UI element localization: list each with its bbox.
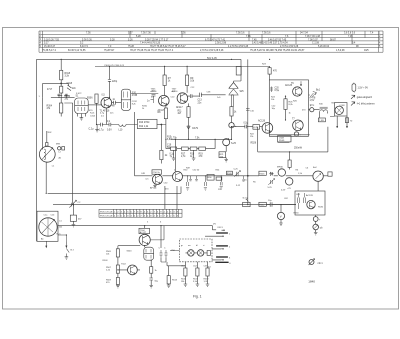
svg-text:C 2,08: C 2,08	[312, 43, 320, 45]
svg-text:1k: 1k	[155, 270, 158, 272]
svg-text:mb 1: mb 1	[318, 263, 324, 265]
svg-text:0,2V: 0,2V	[281, 190, 286, 192]
transistor T11	[286, 178, 293, 185]
svg-text:250mW: 250mW	[294, 147, 303, 149]
ground	[192, 150, 196, 160]
svg-text:50µ: 50µ	[155, 281, 159, 283]
svg-text:470: 470	[106, 282, 110, 284]
resistor R57	[216, 177, 222, 180]
pin arrow inside box top	[300, 81, 301, 86]
wire long vertical from can area down	[64, 103, 72, 205]
diode GR52	[269, 172, 274, 176]
svg-text:R10 270Ω: R10 270Ω	[139, 122, 150, 124]
svg-text:1,5V: 1,5V	[310, 100, 315, 102]
jack circle 2	[197, 250, 203, 256]
capacitor C316	[60, 86, 63, 93]
Fig. 1 caption	[193, 295, 202, 299]
junction	[247, 175, 248, 176]
svg-text:R318: R318	[65, 73, 71, 75]
caps right of S504	[160, 250, 163, 258]
svg-text:R534: R534	[294, 213, 300, 215]
IF transformer S1 (can)	[75, 98, 89, 114]
svg-text:C52: C52	[193, 266, 198, 268]
svg-text:3-12: 3-12	[236, 185, 241, 187]
transistor T4	[223, 139, 230, 146]
wire + caps to IF can1	[51, 95, 75, 97]
capacitor C21	[245, 125, 253, 129]
svg-text:0,5: 0,5	[146, 179, 150, 181]
resistor R7	[163, 75, 166, 86]
svg-text:1,5,0,08: 1,5,0,08	[336, 50, 345, 52]
svg-text:T6: T6	[291, 83, 294, 85]
svg-text:0,5: 0,5	[102, 95, 106, 97]
wire jack to splitter	[317, 181, 319, 191]
svg-text:C314: C314	[90, 116, 96, 118]
rail to volume	[53, 204, 296, 206]
svg-text:75,45 5,20 51 98,298 79,456 75: 75,45 5,20 51 98,298 79,456 75,253 91-51…	[250, 49, 305, 52]
capacitor on T1 top feed	[108, 66, 111, 97]
resistor box R520	[227, 171, 233, 175]
ground under T8	[153, 184, 157, 188]
svg-text:DV: DV	[213, 224, 217, 226]
svg-text:22k: 22k	[218, 189, 222, 191]
ground	[224, 158, 228, 162]
svg-text:4k7: 4k7	[112, 106, 116, 108]
output transformer	[320, 110, 328, 112]
svg-text:R6: R6	[296, 170, 300, 172]
svg-text:ub: ub	[320, 228, 323, 230]
svg-text:rt: rt	[203, 244, 205, 247]
rail AGC lower	[48, 187, 181, 194]
wire T9 collector riser	[174, 139, 176, 171]
svg-text:4717: 4717	[47, 89, 53, 91]
ground	[172, 150, 176, 160]
capacitor C13	[199, 93, 225, 97]
AGC feed chain x228	[226, 138, 228, 152]
label n478	[310, 98, 316, 103]
svg-text:1n5: 1n5	[217, 97, 221, 99]
svg-text:T502: T502	[121, 264, 127, 266]
svg-text:220p: 220p	[112, 81, 118, 83]
svg-text:0,5: 0,5	[101, 116, 105, 118]
resistor R318	[60, 59, 62, 86]
svg-text:5: 5	[147, 222, 149, 224]
svg-text:5k log: 5k log	[243, 198, 249, 200]
svg-text:0,1µ: 0,1µ	[170, 153, 175, 155]
svg-text:0,5: 0,5	[151, 97, 155, 99]
switch / battery lead	[66, 241, 70, 256]
svg-text:75,28 517: 75,28 517	[104, 50, 115, 52]
svg-text:70: 70	[350, 120, 353, 122]
resistor box R21	[219, 152, 226, 158]
resistor box 7,5 ohm	[318, 118, 325, 122]
resistor box L508	[278, 136, 291, 142]
svg-text:C1a: C1a	[44, 215, 49, 217]
resistor R505	[116, 249, 119, 257]
svg-text:+2V: +2V	[287, 188, 291, 190]
capacitor C15	[107, 123, 119, 127]
driver transformer S504	[144, 247, 154, 260]
svg-text:C: C	[159, 248, 161, 250]
wire: +supply top rail	[37, 59, 242, 81]
ground	[80, 118, 84, 120]
svg-text:10k: 10k	[190, 81, 195, 83]
transistor T3 AF117	[177, 93, 188, 104]
trimmer cap C2 (tuning)	[69, 200, 76, 208]
svg-text:5-25: 5-25	[268, 187, 273, 189]
svg-text:10µ: 10µ	[272, 108, 276, 110]
wire S2 to T2	[131, 94, 159, 176]
small box in dashed box	[207, 251, 210, 256]
speaker wires	[330, 116, 347, 127]
svg-text:1n: 1n	[113, 99, 116, 101]
transistor T12	[307, 200, 315, 208]
transistor T502	[127, 265, 137, 275]
resistor box R56	[207, 174, 214, 180]
svg-text:C302: C302	[47, 132, 53, 134]
svg-text:R11: R11	[178, 111, 183, 113]
svg-text:04/5: 04/5	[364, 50, 369, 52]
node label 501/S-06	[207, 57, 217, 60]
svg-text:3,3k: 3,3k	[65, 76, 70, 78]
loudspeaker	[335, 103, 348, 117]
svg-text:L2: L2	[59, 152, 62, 154]
svg-text:470: 470	[89, 110, 93, 112]
resistor R515	[184, 268, 187, 276]
svg-text:OA79: OA79	[192, 127, 199, 130]
svg-text:5-25: 5-25	[234, 169, 239, 171]
table row texts	[40, 33, 382, 52]
svg-text:AF117: AF117	[176, 106, 183, 109]
svg-text:8,2k: 8,2k	[132, 104, 137, 106]
svg-text:5,46 5,87 93 7,45: 5,46 5,87 93 7,45	[268, 39, 287, 41]
svg-text:2k2: 2k2	[65, 98, 69, 100]
transistor T504	[139, 234, 150, 245]
svg-text:5,26 30 04: 5,26 30 04	[318, 46, 330, 48]
svg-text:R304: R304	[47, 106, 53, 108]
svg-text:L1: L1	[52, 166, 55, 168]
svg-text:501 S-05: 501 S-05	[207, 57, 217, 60]
svg-text:7,36 3,6: 7,36 3,6	[262, 33, 271, 35]
svg-text:R306: R306	[87, 98, 93, 100]
svg-text:04 7,04: 04 7,04	[300, 33, 308, 35]
wire: left frame rail	[36, 59, 38, 241]
svg-text:C20: C20	[275, 88, 280, 90]
svg-text:n 478: n 478	[310, 98, 316, 100]
resistor R17	[182, 147, 189, 150]
svg-text:5,36 5,26: 5,36 5,26	[82, 39, 92, 41]
svg-text:S25: S25	[240, 91, 245, 93]
IF filter box above detector	[236, 67, 241, 76]
svg-text:C62: C62	[284, 198, 289, 200]
resistor R511	[150, 267, 153, 274]
resistor R23 470	[269, 66, 271, 67]
svg-text:10k: 10k	[271, 99, 275, 101]
resistor R517	[196, 268, 199, 276]
svg-text:A1: A1	[41, 238, 44, 241]
svg-text:6,75 5,47 6,75 7,41: 6,75 5,47 6,75 7,41	[205, 39, 226, 41]
svg-text:7,36: 7,36	[181, 33, 186, 35]
svg-text:2,7k: 2,7k	[181, 156, 186, 158]
resistor R14	[160, 150, 163, 159]
svg-text:7,5Ω: 7,5Ω	[319, 120, 324, 122]
wire can1 to T1	[88, 104, 101, 106]
svg-text:4k7: 4k7	[78, 219, 82, 221]
svg-text:ws: ws	[188, 245, 191, 247]
svg-text:84 36 5,12 74,55: 84 36 5,12 74,55	[68, 50, 86, 52]
svg-text:4 2,70 51 4,53 5,28: 4 2,70 51 4,53 5,28	[228, 46, 249, 48]
svg-text:R520: R520	[227, 173, 233, 175]
table2 digits	[100, 212, 179, 218]
svg-text:2,38 12,98: 2,38 12,98	[215, 43, 227, 45]
coil L10	[119, 125, 138, 127]
output box bottom rail	[269, 134, 309, 136]
svg-text:0,5µ: 0,5µ	[275, 90, 280, 92]
svg-text:7,06 7,03 1,48: 7,06 7,03 1,48	[305, 36, 321, 38]
svg-text:1k: 1k	[234, 112, 237, 114]
legend arrow 2	[351, 102, 355, 106]
svg-text:4: 4	[229, 263, 231, 265]
svg-text:POS CYCLE: POS CYCLE	[100, 212, 113, 214]
svg-text:2,70 51 4,53 5,28 5,28: 2,70 51 4,53 5,28 5,28	[200, 50, 224, 52]
svg-text:S30: S30	[319, 104, 324, 106]
svg-text:B 2: B 2	[71, 250, 75, 252]
svg-text:5,26: 5,26	[128, 39, 133, 41]
svg-text:7,08 3,07: 7,08 3,07	[308, 39, 318, 41]
svg-text:Bu1: Bu1	[316, 90, 321, 92]
electrolytic C17	[229, 123, 234, 128]
svg-text:bl: bl	[196, 245, 198, 247]
svg-text:15,46 8,47: 15,46 8,47	[44, 46, 56, 48]
resistor R18	[190, 147, 197, 150]
misc value labels	[39, 64, 324, 265]
svg-text:10µ: 10µ	[268, 200, 272, 202]
svg-text:C1b: C1b	[51, 215, 56, 217]
svg-text:C1: C1	[59, 221, 63, 223]
svg-text:f=1 kHz justieren: f=1 kHz justieren	[357, 103, 376, 106]
resistor R19	[199, 147, 206, 150]
svg-text:R17: R17	[181, 153, 186, 155]
svg-text:R50: R50	[184, 170, 189, 172]
volume pot R530 5k	[243, 202, 250, 206]
svg-text:C48: C48	[141, 173, 146, 175]
capacitor C60	[266, 202, 292, 207]
svg-text:2: 2	[229, 247, 231, 249]
svg-text:8,43 74: 8,43 74	[80, 46, 88, 48]
capacitor C54 + ground	[205, 176, 207, 186]
svg-text:gr: gr	[181, 244, 183, 247]
svg-text:S1: S1	[76, 96, 80, 98]
svg-text:R,2k: R,2k	[90, 113, 95, 115]
resistor R527	[345, 118, 348, 123]
capacitor C52	[187, 176, 189, 186]
wire splitter to rail	[292, 204, 296, 206]
svg-text:R56: R56	[208, 177, 213, 179]
resistor R306	[95, 94, 98, 103]
label R316	[65, 96, 71, 101]
svg-text:C10: C10	[171, 97, 176, 99]
svg-text:S-25: S-25	[231, 143, 237, 145]
svg-text:1,5V ÷ 9V: 1,5V ÷ 9V	[358, 86, 369, 89]
svg-text:AC127: AC127	[140, 231, 147, 234]
svg-text:3: 3	[229, 258, 231, 260]
svg-text:0,5V: 0,5V	[107, 130, 112, 132]
resistor R507	[116, 265, 119, 273]
svg-text:T7: T7	[292, 118, 295, 120]
resistor network under dashed box	[185, 262, 207, 268]
svg-text:78,27 75,48 75,42 75,47 75,26: 78,27 75,48 75,42 75,47 75,26 75,17 4	[130, 49, 174, 52]
svg-text:8,2k: 8,2k	[289, 104, 294, 106]
svg-text:2k: 2k	[165, 155, 168, 157]
capacitor C20 label	[270, 87, 273, 93]
jack circle Bu2	[313, 171, 323, 181]
svg-text:AC128: AC128	[306, 194, 313, 197]
volume wire from detector	[232, 126, 245, 128]
caps inside splitter box	[298, 193, 300, 209]
svg-text:C: C	[164, 248, 166, 250]
svg-text:15k: 15k	[250, 136, 254, 138]
svg-text:R528: R528	[251, 143, 257, 145]
capacitor C318	[67, 85, 72, 91]
capacitor C12	[188, 94, 200, 98]
converter misc marks	[189, 176, 245, 181]
svg-text:22n: 22n	[110, 113, 114, 115]
svg-text:C5: C5	[244, 180, 248, 182]
wire second bottom	[278, 141, 290, 143]
resistor R513	[167, 276, 170, 284]
svg-text:4k7: 4k7	[178, 113, 182, 115]
svg-text:L10: L10	[119, 129, 124, 131]
legend arrow 1	[351, 95, 355, 99]
coupling coil pin	[46, 143, 48, 147]
svg-text:470: 470	[273, 71, 278, 73]
resistor box R532	[259, 202, 266, 206]
svg-text:1k: 1k	[289, 113, 292, 115]
mid resistor R25	[284, 99, 287, 110]
capacitor C506	[149, 278, 153, 286]
svg-text:2,70 51 4,53 5,28: 2,70 51 4,53 5,28	[280, 46, 299, 48]
resistor R11	[187, 107, 190, 118]
svg-text:R12 1,2k: R12 1,2k	[139, 126, 149, 128]
svg-text:C,2µ: C,2µ	[89, 129, 95, 131]
bias row wire	[171, 138, 232, 140]
svg-text:R18: R18	[190, 153, 195, 155]
legend battery	[352, 84, 356, 91]
wire T1 emitter down	[105, 108, 107, 125]
vertical drops to table	[165, 186, 177, 209]
svg-text:5,18 5,26 7,55: 5,18 5,26 7,55	[44, 39, 60, 41]
svg-text:R526: R526	[259, 173, 265, 175]
electrolytic C64	[313, 217, 318, 222]
transistor T8 (oscillator)	[152, 174, 162, 184]
svg-text:75,28: 75,28	[128, 46, 135, 48]
wires into pins	[205, 236, 221, 260]
trimmer ub	[313, 224, 319, 230]
svg-text:5,28: 5,28	[110, 39, 115, 41]
svg-text:470: 470	[302, 110, 306, 112]
svg-text:1,5k: 1,5k	[298, 173, 303, 175]
svg-text:7,36 3,6: 7,36 3,6	[236, 33, 245, 35]
svg-text:98 87: 98 87	[330, 39, 337, 41]
svg-text:1n: 1n	[147, 101, 150, 103]
label box T504	[139, 228, 150, 233]
svg-text:18k: 18k	[181, 281, 185, 283]
svg-text:R9: R9	[190, 78, 194, 80]
svg-text:R5: R5	[253, 182, 257, 184]
svg-text:R7: R7	[168, 78, 172, 80]
svg-text:1840: 1840	[308, 279, 315, 283]
transistor T2 AF117	[159, 95, 170, 106]
svg-text:R8: R8	[158, 112, 162, 114]
transistor T7	[293, 120, 304, 131]
diode OA79	[187, 125, 190, 139]
parts table top	[39, 31, 383, 52]
svg-text:DR 3: DR 3	[218, 227, 224, 229]
svg-text:310Ω: 310Ω	[279, 140, 285, 142]
label box C50	[152, 170, 162, 174]
outer bottom rail	[258, 127, 328, 152]
svg-text:R23: R23	[262, 64, 267, 66]
AGC row: ground	[95, 125, 99, 133]
phase splitter box	[295, 191, 325, 215]
transistor T10	[278, 169, 285, 176]
svg-text:2,2k: 2,2k	[106, 270, 111, 272]
capacitor C310	[112, 101, 122, 105]
electrolytic C24	[294, 132, 298, 136]
transistor T9	[173, 172, 183, 182]
coil tap table (middle)	[99, 209, 182, 217]
resistor R519	[206, 268, 209, 276]
svg-text:7,44 4,44 8,76 5,26: 7,44 4,44 8,76 5,26	[140, 43, 161, 45]
svg-text:1: 1	[229, 234, 231, 236]
svg-text:R513: R513	[172, 280, 178, 282]
detector diode pair D1	[229, 81, 239, 89]
meter jack M1	[277, 212, 284, 219]
transistor T6 AC125	[293, 87, 302, 96]
capacitor C55 + ground	[220, 176, 223, 189]
svg-text:22n: 22n	[72, 88, 77, 90]
wire rows to dashed box	[161, 226, 185, 266]
svg-text:C52 50: C52 50	[193, 170, 201, 172]
svg-text:1: 1	[39, 96, 41, 98]
wire T504 to bar1	[150, 226, 164, 240]
resistor R529 (to converter)	[288, 160, 291, 167]
svg-text:78,27 75,48 5,42 75,47 75,26 5: 78,27 75,48 5,42 75,47 75,26 5,17	[150, 46, 186, 48]
wire gang to ground	[46, 241, 47, 247]
AF driver stage box	[269, 80, 308, 136]
svg-text:0,5W: 0,5W	[340, 105, 346, 107]
IF transformer S2 (can)	[121, 89, 130, 110]
svg-text:10k: 10k	[106, 253, 110, 255]
earphone jack	[310, 92, 317, 98]
capacitor C14	[97, 123, 107, 127]
svg-text:472B: 472B	[132, 95, 138, 97]
svg-text:galva abgleich: galva abgleich	[357, 96, 373, 99]
transistor T5 AC126	[262, 123, 273, 134]
svg-text:+: +	[319, 219, 321, 221]
svg-text:R536: R536	[318, 207, 324, 209]
print number 1840	[308, 279, 315, 283]
svg-text:7,45: 7,45	[252, 39, 257, 41]
junction node	[161, 124, 162, 125]
svg-text:3,6 3,6 3,6: 3,6 3,6 3,6	[344, 33, 356, 35]
svg-text:L508: L508	[279, 138, 285, 140]
svg-text:Bu2: Bu2	[313, 167, 318, 169]
trimmer cap C56	[268, 179, 274, 186]
svg-text:1k: 1k	[142, 108, 145, 110]
svg-text:POS CYCLE: POS CYCLE	[100, 216, 113, 218]
svg-text:2k2: 2k2	[59, 227, 63, 229]
